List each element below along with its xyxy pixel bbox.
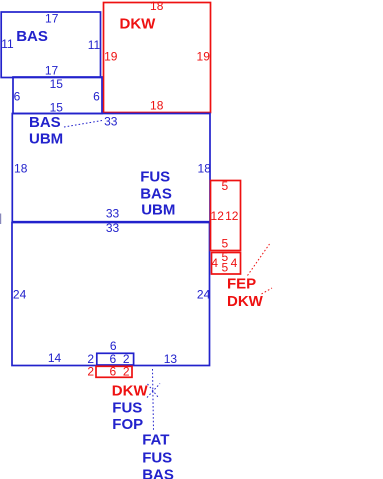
leader red dotted tick near DKW label [262, 288, 273, 294]
stoop red 6x2 box (bottom) [96, 366, 132, 377]
svg-text:DKW: DKW [227, 293, 264, 310]
room FEP 4x5 (small red box right) [212, 253, 241, 275]
svg-text:6: 6 [109, 364, 116, 378]
svg-text:4: 4 [211, 256, 218, 270]
stoop blue 6x2 box (bottom) [97, 353, 134, 365]
svg-text:6: 6 [14, 89, 21, 103]
svg-text:24: 24 [197, 288, 211, 302]
svg-text:FOP: FOP [112, 416, 143, 433]
svg-text:33: 33 [106, 221, 120, 235]
leader dashed X cross (bottom) [147, 384, 160, 398]
room BAS (top-left box) [1, 12, 100, 78]
svg-text:17: 17 [45, 64, 59, 78]
room FEP 5x12 (tall red box right) [211, 181, 241, 251]
svg-text:BAS: BAS [140, 186, 172, 203]
svg-text:FUS: FUS [142, 449, 172, 466]
svg-text:6: 6 [110, 339, 117, 353]
leader red dotted line to FEP label [248, 244, 270, 276]
svg-text:18: 18 [198, 162, 212, 176]
svg-text:33: 33 [106, 207, 120, 221]
svg-text:UBM: UBM [141, 202, 175, 219]
svg-text:5: 5 [221, 179, 228, 193]
svg-text:14: 14 [48, 351, 62, 365]
left edge tick [0, 214, 2, 225]
svg-text:4: 4 [231, 256, 238, 270]
svg-text:13: 13 [164, 352, 178, 366]
svg-text:11: 11 [88, 38, 101, 52]
svg-text:BAS: BAS [142, 466, 174, 479]
svg-text:15: 15 [50, 100, 64, 114]
svg-text:15: 15 [50, 77, 64, 91]
svg-text:FAT: FAT [142, 431, 169, 448]
svg-text:DKW: DKW [112, 383, 149, 400]
svg-text:BAS: BAS [16, 28, 48, 45]
svg-text:19: 19 [197, 50, 211, 64]
svg-text:18: 18 [14, 162, 28, 176]
svg-text:12: 12 [211, 209, 225, 223]
svg-text:12: 12 [225, 209, 239, 223]
room 15x6 box [13, 77, 102, 114]
room DKW (top-right red box) [104, 3, 211, 113]
leader dashed vertical line (bottom) [153, 369, 154, 431]
room lower 24x33 box [12, 223, 210, 366]
svg-text:5: 5 [221, 261, 228, 275]
svg-text:19: 19 [104, 50, 118, 64]
svg-text:17: 17 [45, 12, 59, 26]
room FUS BAS UBM (middle box) [12, 114, 210, 222]
svg-text:18: 18 [150, 99, 164, 113]
svg-text:24: 24 [13, 288, 27, 302]
svg-text:FUS: FUS [140, 169, 170, 186]
svg-text:2: 2 [87, 364, 94, 378]
svg-text:2: 2 [123, 364, 130, 378]
svg-text:FEP: FEP [227, 275, 256, 292]
svg-text:11: 11 [1, 37, 14, 51]
svg-text:FUS: FUS [112, 399, 142, 416]
svg-text:6: 6 [93, 89, 100, 103]
svg-text:5: 5 [221, 236, 228, 250]
svg-text:DKW: DKW [120, 16, 157, 33]
leader dotted line to 33 label [64, 121, 102, 128]
svg-text:BAS: BAS [29, 114, 61, 131]
svg-text:UBM: UBM [29, 131, 63, 148]
svg-text:18: 18 [150, 0, 164, 13]
svg-text:33: 33 [104, 114, 118, 128]
